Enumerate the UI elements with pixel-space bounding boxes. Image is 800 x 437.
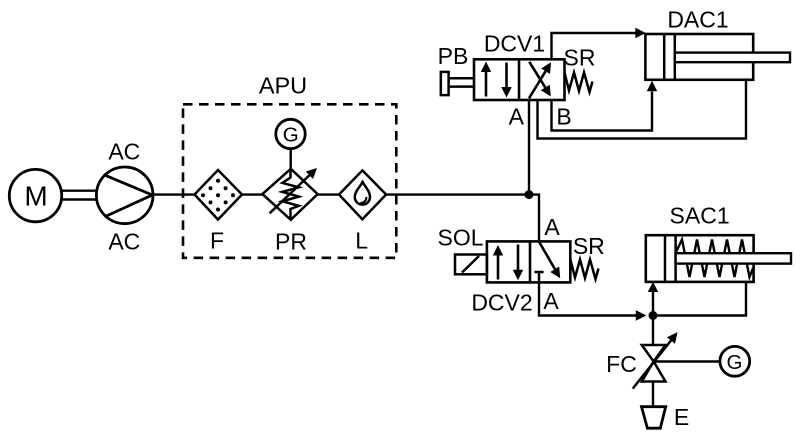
node junction 2 xyxy=(649,311,658,320)
wire FC to gauge G2 xyxy=(654,360,721,362)
wire junction 2 up to SAC1 (arrow up) xyxy=(652,292,654,316)
wire junction 2 right and up to SAC1 rod end xyxy=(653,282,746,316)
wire DCV1 top to DAC1 cap end (arrow right) xyxy=(552,33,637,59)
svg-text:A: A xyxy=(543,288,559,314)
FC adjustment arrow xyxy=(633,341,671,389)
svg-text:A: A xyxy=(544,214,560,240)
svg-text:PB: PB xyxy=(438,43,469,69)
valve DCV1 body xyxy=(474,59,565,100)
svg-text:SR: SR xyxy=(573,233,605,259)
wire PR to L xyxy=(317,193,339,195)
spring return SR (DCV2) xyxy=(570,260,598,280)
wire FC to exhaust xyxy=(652,382,654,407)
lubricator L xyxy=(339,170,386,219)
motor M1 xyxy=(9,169,61,221)
svg-text:M: M xyxy=(24,180,47,211)
svg-text:SAC1: SAC1 xyxy=(670,202,730,228)
svg-text:G: G xyxy=(727,351,743,374)
gauge G (APU) xyxy=(276,119,305,148)
flow control valve FC xyxy=(642,345,666,382)
svg-text:B: B xyxy=(556,104,571,130)
svg-text:DCV2: DCV2 xyxy=(471,290,532,316)
DCV1 left box down arrow xyxy=(505,63,508,90)
DCV2 left box up arrow xyxy=(497,254,500,280)
svg-text:AC: AC xyxy=(108,229,140,255)
solenoid SOL xyxy=(455,255,487,275)
DCV1 right box crossed arrow down xyxy=(529,62,545,88)
DCV2 blocked port T xyxy=(535,272,544,282)
DAC1 piston xyxy=(664,34,675,80)
push button PB xyxy=(441,72,474,95)
filter F dots xyxy=(201,179,235,212)
svg-text:G: G xyxy=(283,124,299,147)
wire compressor to filter F xyxy=(153,193,195,195)
cylinder SAC1 body xyxy=(646,235,754,282)
APU enclosure dashed box xyxy=(183,104,396,257)
SAC1 piston xyxy=(665,235,676,282)
cylinder DAC1 body xyxy=(645,34,753,80)
DCV2 right box diagonal arrow xyxy=(539,242,555,270)
DCV1 left box up arrow xyxy=(485,70,488,97)
wire F to PR xyxy=(242,193,264,195)
svg-text:F: F xyxy=(210,228,224,254)
svg-text:SOL: SOL xyxy=(437,224,483,250)
wire DCV2 A out to junction 2 (arrow right) xyxy=(539,282,637,315)
cylinder SAC1 spring xyxy=(676,240,754,278)
exhaust E funnel xyxy=(642,407,666,429)
svg-text:FC: FC xyxy=(606,351,637,377)
wire L to DCV2 supply drop xyxy=(386,195,539,242)
wire DCV1 B to DAC1 bottom cap (arrow up) xyxy=(552,92,653,131)
air compressor AC xyxy=(96,167,153,224)
svg-text:PR: PR xyxy=(275,229,307,255)
SAC1 piston rod xyxy=(676,253,791,263)
valve DCV2 body xyxy=(487,241,570,282)
PR adjustment arrow xyxy=(270,175,311,214)
pressure regulator PR xyxy=(262,169,317,220)
DCV2 left box down arrow xyxy=(517,245,520,272)
wire PR to gauge G xyxy=(290,149,292,170)
svg-text:DAC1: DAC1 xyxy=(667,7,728,33)
wire junction 2 down to FC xyxy=(652,316,654,346)
svg-text:L: L xyxy=(355,228,368,254)
filter F xyxy=(195,170,243,220)
wire DCV1 mid port to DAC1 rod end xyxy=(538,80,747,139)
drive shaft double line xyxy=(62,191,98,200)
svg-text:APU: APU xyxy=(259,73,307,99)
gauge G2 xyxy=(720,346,750,376)
DAC1 piston rod xyxy=(675,53,790,63)
svg-text:E: E xyxy=(674,404,689,430)
node junction 1 xyxy=(525,190,534,199)
svg-text:SR: SR xyxy=(564,44,596,70)
DCV1 right box crossed arrow up xyxy=(529,71,546,98)
spring return SR (DCV1) xyxy=(565,73,593,93)
svg-text:A: A xyxy=(509,103,525,129)
wire DCV1 port A down to junction 1 xyxy=(528,100,530,195)
svg-text:DCV1: DCV1 xyxy=(484,31,545,57)
svg-text:AC: AC xyxy=(108,139,140,165)
